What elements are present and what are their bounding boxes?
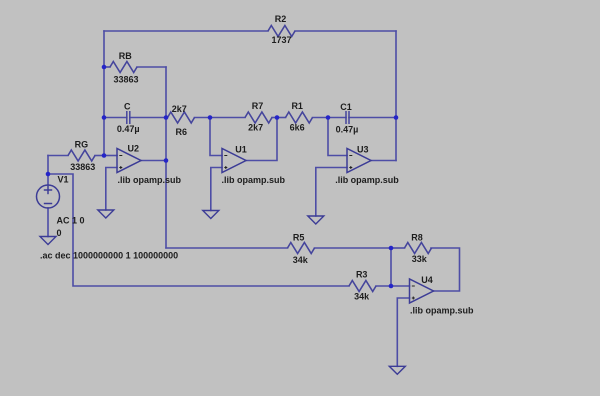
svg-text:RG: RG xyxy=(75,140,89,150)
svg-text:.lib opamp.sub: .lib opamp.sub xyxy=(118,175,182,185)
svg-text:34k: 34k xyxy=(293,255,309,265)
svg-text:R7: R7 xyxy=(252,101,264,111)
svg-text:U3: U3 xyxy=(357,145,369,155)
svg-text:U1: U1 xyxy=(235,145,247,155)
svg-text:R6: R6 xyxy=(176,127,188,137)
svg-text:6k6: 6k6 xyxy=(290,123,305,133)
svg-text:R3: R3 xyxy=(356,269,368,279)
svg-text:C1: C1 xyxy=(340,102,352,112)
svg-text:U4: U4 xyxy=(421,275,433,285)
svg-text:2k7: 2k7 xyxy=(172,104,187,114)
svg-text:0: 0 xyxy=(57,228,62,238)
svg-text:AC 1 0: AC 1 0 xyxy=(57,216,85,226)
svg-text:.ac dec 1000000000 1 100000000: .ac dec 1000000000 1 100000000 xyxy=(40,251,178,261)
svg-text:0.47µ: 0.47µ xyxy=(336,125,359,135)
svg-text:V1: V1 xyxy=(57,175,68,185)
svg-text:33k: 33k xyxy=(412,254,428,264)
svg-text:.lib opamp.sub: .lib opamp.sub xyxy=(222,175,286,185)
svg-text:33863: 33863 xyxy=(113,75,138,85)
svg-text:33863: 33863 xyxy=(70,162,95,172)
svg-text:.lib opamp.sub: .lib opamp.sub xyxy=(410,306,474,316)
svg-text:34k: 34k xyxy=(354,291,370,301)
svg-text:.lib opamp.sub: .lib opamp.sub xyxy=(335,175,399,185)
svg-text:R8: R8 xyxy=(411,232,423,242)
svg-text:R1: R1 xyxy=(291,101,303,111)
svg-text:R5: R5 xyxy=(293,233,305,243)
svg-text:U2: U2 xyxy=(128,144,140,154)
svg-text:C: C xyxy=(124,102,131,112)
svg-text:2k7: 2k7 xyxy=(248,123,263,133)
svg-text:RB: RB xyxy=(119,51,132,61)
svg-text:1737: 1737 xyxy=(271,35,291,45)
svg-text:R2: R2 xyxy=(275,14,287,24)
svg-text:0.47µ: 0.47µ xyxy=(117,124,140,134)
